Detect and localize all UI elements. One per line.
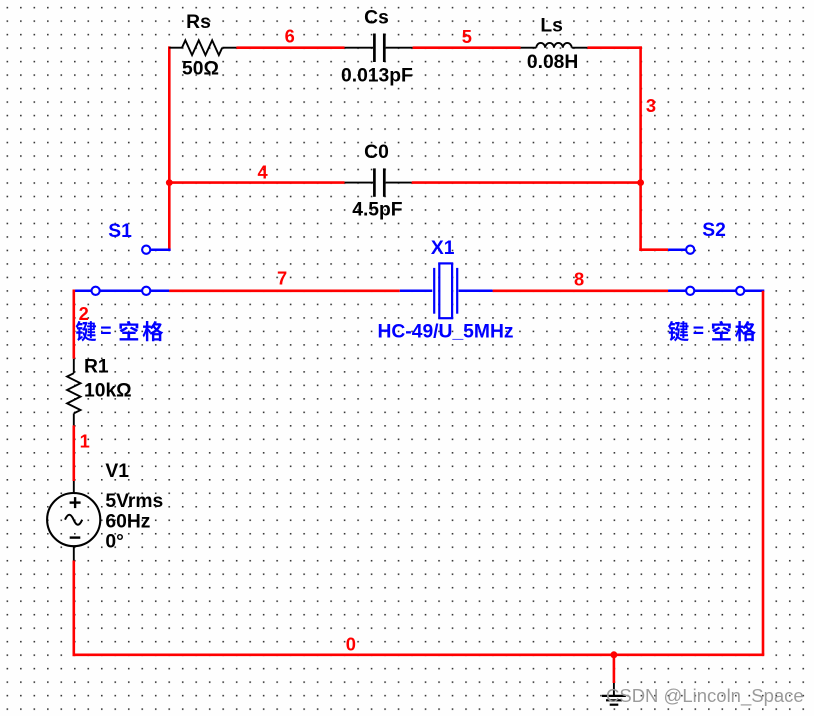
svg-text:60Hz: 60Hz <box>105 511 150 532</box>
resistor Rs symbol <box>169 40 236 55</box>
svg-text:S1: S1 <box>108 221 132 242</box>
svg-text:4.5pF: 4.5pF <box>352 200 403 221</box>
svg-text:6: 6 <box>285 26 295 47</box>
svg-text:R1: R1 <box>84 356 109 377</box>
wire net3 top segment (Ls to right corner) <box>587 46 642 49</box>
ac source V1 symbol <box>47 481 100 561</box>
svg-text:1: 1 <box>80 431 90 452</box>
svg-text:0: 0 <box>346 633 356 654</box>
svg-text:0.08H: 0.08H <box>527 52 578 73</box>
node junction on net at left (x 169.3, y 182.6) <box>166 179 173 186</box>
svg-text:Cs: Cs <box>364 8 389 29</box>
svg-text:=: = <box>693 321 704 342</box>
svg-text:4: 4 <box>258 162 269 183</box>
switch S1 blade and terminals <box>74 246 170 295</box>
svg-text:Ls: Ls <box>540 16 563 37</box>
svg-text:0°: 0° <box>105 531 123 552</box>
S2 key label 键 = 空格 <box>668 321 756 342</box>
svg-text:HC-49/U_5MHz: HC-49/U_5MHz <box>377 321 513 342</box>
svg-text:V1: V1 <box>105 461 129 482</box>
capacitor C0 symbol <box>345 168 412 196</box>
svg-text:S2: S2 <box>702 220 726 241</box>
S1 key label 键 = 空格 <box>76 321 164 342</box>
resistor R1 symbol <box>67 359 80 426</box>
inductor Ls symbol <box>521 43 588 48</box>
svg-text:0.013pF: 0.013pF <box>341 65 413 86</box>
svg-text:5Vrms: 5Vrms <box>105 491 163 512</box>
node junction on net at right (x 640.6, y 182.6) <box>637 179 644 186</box>
wire net0 bottom rail <box>73 653 765 656</box>
switch S2 blade and terminals <box>668 246 764 295</box>
svg-text:50Ω: 50Ω <box>182 59 219 80</box>
svg-text:2: 2 <box>79 303 89 324</box>
wire net2 (main line corner down to R1) <box>73 290 76 359</box>
svg-text:5: 5 <box>462 26 472 47</box>
wire net3 right vertical (S2 down to bottom rail) <box>762 291 765 655</box>
svg-text:Rs: Rs <box>186 12 211 33</box>
wire net (C0 to right junction) <box>412 181 641 184</box>
wire net6 (Rs to Cs) <box>236 46 344 49</box>
svg-text:C0: C0 <box>364 142 389 163</box>
ground symbol <box>602 683 626 705</box>
wire net8 (X1 to S2) <box>493 289 668 292</box>
svg-text:X1: X1 <box>431 238 455 259</box>
wire net3: upper-right vertical from Ls corner down to S2 throw <box>639 46 642 251</box>
switch S1 upper throw wire (blue) <box>146 248 170 251</box>
wire net1 (R1 to V1) <box>73 425 76 481</box>
svg-text:3: 3 <box>646 95 656 116</box>
capacitor Cs symbol <box>345 34 413 63</box>
switch S2 upper throw wire (red corner + blue) <box>639 248 690 251</box>
svg-text:=: = <box>100 321 111 342</box>
node junction on bottom rail at ground tap <box>610 651 617 658</box>
crystal X1 symbol <box>400 263 493 318</box>
wire net7 (S1 to X1) <box>169 289 399 292</box>
svg-text:CSDN @Lincoln_Space: CSDN @Lincoln_Space <box>606 685 804 707</box>
wire net5 (Cs to Ls) <box>413 46 521 49</box>
wire net0 (V1 down to bottom rail) <box>73 561 76 657</box>
svg-text:8: 8 <box>574 269 584 290</box>
svg-text:7: 7 <box>277 268 287 289</box>
wire net4 left segment (junction to C0) <box>169 181 344 184</box>
wire ground stub <box>613 655 616 683</box>
wire net3: upper-left vertical from Rs corner down to S1 throw <box>168 46 171 251</box>
svg-text:10kΩ: 10kΩ <box>84 381 132 402</box>
